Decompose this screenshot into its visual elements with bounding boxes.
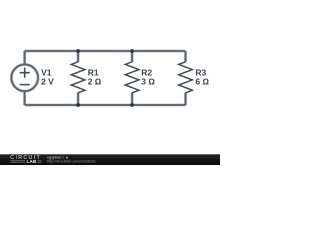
svg-text:2 Ω: 2 Ω (88, 77, 102, 87)
svg-text:6 Ω: 6 Ω (195, 77, 209, 87)
svg-text:LAB: LAB (27, 159, 38, 164)
svg-text:3 Ω: 3 Ω (141, 77, 155, 87)
svg-text:2 V: 2 V (41, 77, 54, 87)
svg-text:http://circuitlab.com/c/s36c6z: http://circuitlab.com/c/s36c6z (47, 160, 96, 164)
